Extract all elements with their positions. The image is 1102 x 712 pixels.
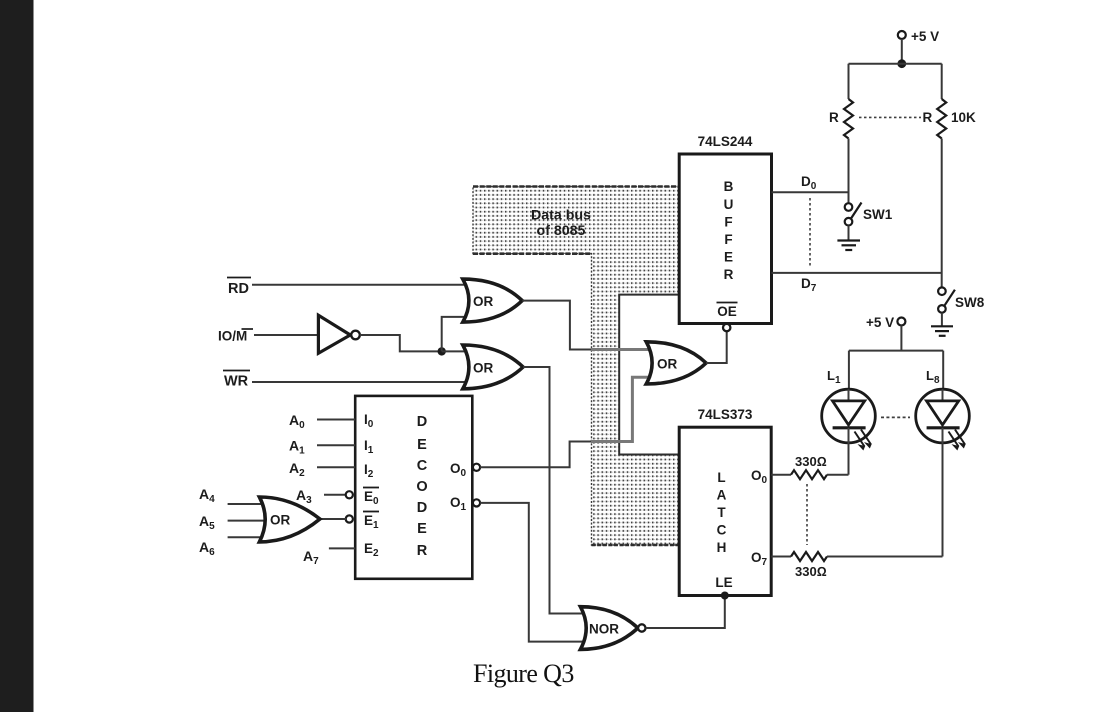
data bus hatched region of 8085 <box>473 187 679 546</box>
data bus cutout solid border <box>619 295 679 455</box>
wire resistor to L8 cathode <box>827 556 943 558</box>
wire A1 to I1 <box>317 444 355 446</box>
inversion bubble OE <box>723 324 730 331</box>
wire SW1 to ground <box>848 226 850 241</box>
svg-text:D: D <box>417 500 427 516</box>
svg-text:330Ω: 330Ω <box>795 564 827 579</box>
svg-text:74LS244: 74LS244 <box>698 134 753 149</box>
svg-text:F: F <box>724 215 732 230</box>
wire junction to OR2 upper input <box>442 350 467 352</box>
nor-gate NOR (latch enable) <box>580 607 645 650</box>
or-gate OR2 (WR) <box>463 345 523 389</box>
wire A7 to E2 <box>329 547 355 549</box>
pin OE label <box>717 303 738 320</box>
wire D7 from buffer to SW8 branch <box>772 272 942 274</box>
data bus band bottom edge <box>473 252 592 255</box>
latch LATCH letters <box>717 470 727 555</box>
wire A5 input <box>228 520 268 522</box>
wire R8 down to D7 and SW8 <box>941 139 943 288</box>
output bubble O1 <box>473 499 480 506</box>
data bus block bottom edge <box>592 544 680 546</box>
svg-text:Data bus: Data bus <box>531 208 591 224</box>
svg-text:R: R <box>829 110 839 125</box>
left dark sidebar <box>0 0 34 712</box>
svg-text:A: A <box>717 488 727 503</box>
svg-text:SW1: SW1 <box>863 207 893 222</box>
svg-text:F: F <box>724 232 732 247</box>
power +5V LED terminal <box>866 315 905 330</box>
decoder vertical DECODER letters <box>416 414 427 559</box>
node WR label <box>223 371 250 390</box>
wire +5V terminal to rail <box>901 39 903 64</box>
wire O0 to OR3 lower input <box>480 442 591 468</box>
svg-text:LE: LE <box>715 575 732 590</box>
switch SW8 <box>938 287 985 312</box>
LED L1 <box>822 389 876 449</box>
wire NOR output to LE <box>646 596 725 629</box>
data bus label <box>531 208 591 240</box>
wire A3 to E0 bubble <box>324 494 346 496</box>
resistor R8 (pull-up 10K) <box>937 99 946 139</box>
dashed ellipsis between resistors <box>859 116 921 118</box>
svg-text:OR: OR <box>473 294 494 309</box>
LED L8 <box>916 389 970 449</box>
svg-text:L: L <box>717 470 725 485</box>
wire IO/M to inverter <box>254 334 319 336</box>
dashed ellipsis between O0 and O7 <box>806 484 808 545</box>
node RD label <box>227 278 251 298</box>
wire O7 pin to resistor <box>771 556 791 558</box>
resistor 330ohm top <box>791 470 827 479</box>
svg-text:E: E <box>724 250 733 265</box>
svg-text:RD: RD <box>228 281 249 297</box>
wire OR3 output up to OE bubble <box>706 332 727 364</box>
ground under SW1 <box>837 241 860 251</box>
node IO/M label <box>218 329 253 344</box>
wire LED rail <box>849 350 943 352</box>
svg-text:B: B <box>724 179 734 194</box>
wire LED L1 cathode down to 330 resistor <box>848 443 850 475</box>
svg-text:WR: WR <box>224 374 249 390</box>
svg-text:E: E <box>417 521 427 537</box>
decoder U3 box <box>355 396 472 579</box>
svg-text:H: H <box>717 540 727 555</box>
svg-text:C: C <box>717 523 727 538</box>
latch U4 74LS373 box <box>679 427 771 595</box>
data bus band top edge <box>473 185 679 188</box>
svg-text:O: O <box>416 479 427 495</box>
dashed ellipsis between LEDs <box>881 416 910 418</box>
resistor 330ohm bottom <box>791 552 827 561</box>
resistor R1 (pull-up R) <box>844 99 853 139</box>
wire resistor to L1 cathode <box>827 474 849 476</box>
wire OR4 output to E1 bubble <box>320 518 346 520</box>
ground under SW8 <box>931 326 953 336</box>
wire D0 from buffer to SW1 branch <box>772 191 849 193</box>
svg-text:+5 V: +5 V <box>866 315 894 330</box>
wire OR2 output down to NOR top input <box>523 367 588 614</box>
wire A6 input <box>228 536 268 538</box>
svg-text:R: R <box>417 543 428 559</box>
svg-text:OE: OE <box>717 304 737 319</box>
wire O0 pin to resistor <box>771 474 791 476</box>
svg-text:R: R <box>923 110 933 125</box>
junction LE pin <box>721 592 729 600</box>
wire RD to OR1 <box>252 284 467 286</box>
inversion bubble E0 <box>346 491 353 498</box>
wire inverter output to junction <box>360 335 442 351</box>
svg-text:OR: OR <box>270 513 291 528</box>
wire R1 down to SW1 <box>848 139 850 204</box>
wire rail to LED L8 <box>942 351 944 390</box>
svg-text:330Ω: 330Ω <box>795 454 827 469</box>
switch SW1 <box>845 203 893 226</box>
pin E0 <box>363 488 379 508</box>
wire LED L8 cathode down to O7 line <box>942 443 944 557</box>
wire WR to OR2 <box>252 381 467 383</box>
wire SW8 to ground <box>941 313 943 327</box>
svg-text:U: U <box>724 197 734 212</box>
inversion bubble E1 <box>346 515 353 522</box>
svg-text:of 8085: of 8085 <box>537 223 586 239</box>
svg-text:T: T <box>717 505 726 520</box>
power +5V top terminal <box>898 29 939 44</box>
wire +5V rail <box>849 63 942 65</box>
svg-text:E: E <box>417 437 427 453</box>
or-gate OR1 (RD) <box>463 279 522 322</box>
svg-text:SW8: SW8 <box>955 295 985 310</box>
inverter U2 (IO/M) <box>318 315 359 353</box>
wire rail down to resistor R1 <box>848 64 850 99</box>
buffer BUFFER letters <box>724 179 734 282</box>
or-gate OR4 (address A4-A6) <box>259 497 320 542</box>
dashed ellipsis between D0 and D7 <box>809 198 811 266</box>
wire junction up to OR1 lower input <box>442 317 467 352</box>
svg-text:IO/M: IO/M <box>218 329 247 344</box>
wire A4 input <box>228 503 268 505</box>
buffer U1 74LS244 box <box>679 154 771 324</box>
or-gate OR3 (middle, OE control) <box>646 342 706 384</box>
svg-text:10K: 10K <box>951 110 976 125</box>
wire O1 down to NOR lower input <box>480 503 588 642</box>
wire +5V to LED rail <box>900 326 902 351</box>
wire rail down to resistor R8 <box>941 64 943 99</box>
wire O0 crossing data bus <box>591 377 654 441</box>
svg-text:Figure Q3: Figure Q3 <box>473 659 574 688</box>
pin E1 <box>363 512 379 532</box>
svg-text:NOR: NOR <box>589 622 619 637</box>
svg-text:+5 V: +5 V <box>911 29 939 44</box>
wire A0 to I0 <box>317 419 355 421</box>
svg-text:D: D <box>417 414 427 430</box>
wire OR1 output to OR3 top input <box>522 301 591 350</box>
svg-text:R: R <box>724 267 734 282</box>
wire OR1 output crossing data bus <box>591 348 654 351</box>
svg-text:OR: OR <box>657 357 678 372</box>
output bubble O0 <box>473 464 480 471</box>
junction +5V rail <box>897 59 906 68</box>
svg-text:C: C <box>417 458 428 474</box>
junction inverter node <box>438 347 446 355</box>
svg-text:OR: OR <box>473 361 494 376</box>
svg-text:74LS373: 74LS373 <box>698 407 753 422</box>
wire rail to LED L1 <box>848 351 850 390</box>
wire A2 to I2 <box>317 466 355 468</box>
